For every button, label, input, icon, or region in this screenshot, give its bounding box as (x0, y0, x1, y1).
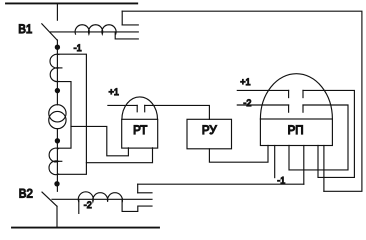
wire branch to RT right terminal (86, 148, 152, 163)
wire bottom stub jog (122, 199, 152, 211)
wire -2 stub (78, 199, 80, 213)
transformer T1 circle upper (49, 105, 66, 122)
wire RP terminal to bottom link (303, 146, 305, 185)
transformer T1 circle lower (49, 111, 66, 128)
svg-text:В2: В2 (19, 189, 33, 201)
wire B1 to CT column (56, 40, 58, 54)
wire +1 into RP contact row 1 (237, 89, 288, 91)
RP contact row1 tick left (288, 90, 290, 97)
RT contact tick left (136, 105, 138, 111)
main CT column wire (upper) (56, 54, 58, 105)
wire riser bottom connector (137, 184, 139, 193)
wire riser to long bus wire (121, 11, 123, 25)
node junction dot 4 (55, 182, 59, 186)
RP contact row2 tick left (288, 105, 290, 112)
node junction dot 1 (55, 45, 59, 49)
svg-text:РУ: РУ (202, 125, 217, 137)
TT1 winding mid tap tick (57, 67, 62, 69)
svg-text:В1: В1 (18, 24, 32, 36)
RT contact tick right (144, 105, 146, 111)
svg-text:+1: +1 (109, 87, 119, 97)
breaker B2 blade (42, 192, 57, 206)
wire CT1 lower tap loop (57, 82, 71, 149)
wire -2 into RP contact row 2 (237, 104, 288, 106)
main CT column wire (lower) (56, 129, 58, 192)
RP contact row1 tick right (302, 90, 304, 97)
reactor L1 (75, 25, 116, 34)
wire feeder 1 (51, 31, 139, 33)
breaker B1 blade (42, 24, 58, 41)
RP contact row2 tick right (302, 105, 304, 112)
wire RP terminal -1 stub (274, 146, 276, 178)
reactor L2 (78, 192, 122, 202)
current transformer TT1 winding (50, 54, 59, 81)
relay RU body (187, 119, 232, 149)
svg-text:-1: -1 (277, 175, 285, 185)
svg-text:-1: -1 (74, 43, 82, 53)
wire branch to RT left terminal (71, 126, 128, 155)
wire top stub (122, 24, 138, 26)
node junction dot 3 (55, 139, 59, 143)
relay RT dome (122, 97, 158, 119)
wire RP contact row1 loop to terminal (303, 90, 354, 177)
node junction dot 2 (55, 89, 59, 93)
breaker B2 drop to bus (56, 206, 58, 227)
wire lower stub jog (115, 32, 138, 39)
relay RT body (122, 119, 158, 148)
wire RP terminal to top bus link (323, 146, 325, 192)
wire bottom stub upper (138, 192, 152, 194)
current transformer TT2 winding (49, 148, 59, 175)
TT2 winding mid tap tick (57, 160, 61, 162)
svg-text:РТ: РТ (133, 125, 147, 137)
svg-text:РП: РП (288, 125, 304, 137)
relay RP body (260, 119, 332, 146)
wire RU output to RP (209, 146, 268, 163)
wire -1 circuit (CT secondary loop) (57, 54, 86, 174)
wire +1 to RT contact (108, 104, 137, 106)
breaker B1 drop wire (56, 3, 58, 20)
svg-text:-2: -2 (243, 98, 251, 108)
busbar section 2 (bottom bus) (12, 227, 159, 229)
busbar section 1 (top bus) (6, 2, 137, 4)
relay RP dome (260, 74, 332, 119)
wire long bottom link (to RP terminal) (138, 183, 304, 185)
svg-text:-2: -2 (84, 200, 92, 210)
wire long top link (to RP circuit) (122, 11, 362, 191)
wire RT contact to RU (145, 105, 210, 119)
wire feeder 2 (52, 198, 152, 200)
wire RP contact row2 loop to terminal (289, 105, 348, 170)
svg-text:+1: +1 (240, 77, 250, 87)
